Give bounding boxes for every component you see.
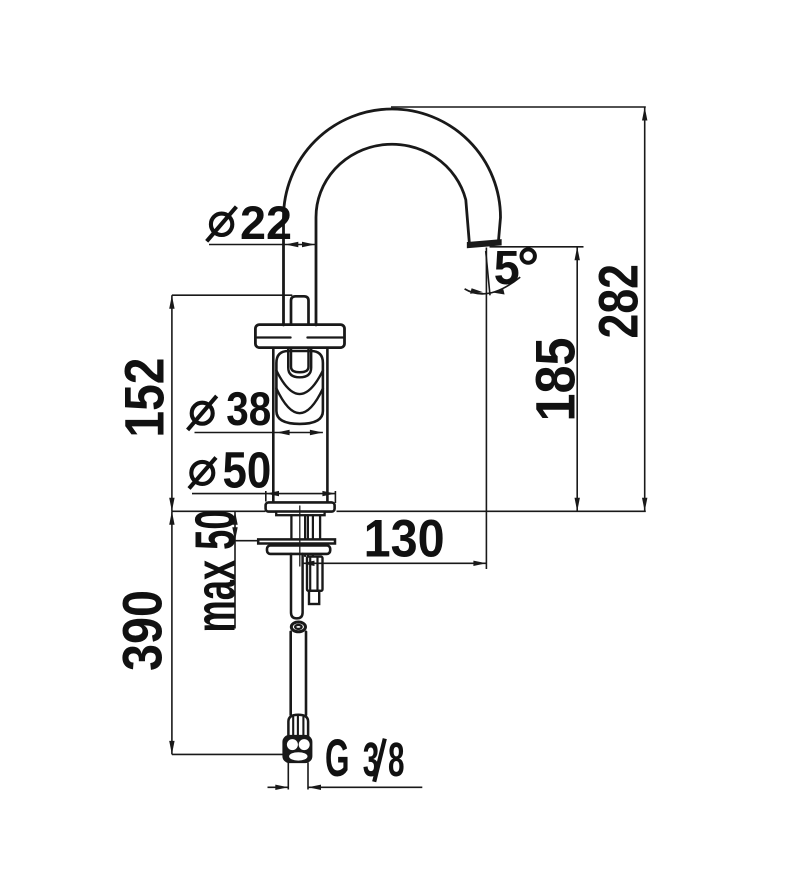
shank right line <box>319 515 321 539</box>
G3/8 nut circle left <box>287 739 298 750</box>
shank inner line a <box>304 515 306 556</box>
supply elbow lower block <box>309 591 319 604</box>
supply elbow inner line a <box>309 557 311 591</box>
arrow 282 bottom <box>642 498 647 512</box>
arrow 130 right <box>473 561 486 566</box>
390 bottom extension line <box>172 753 285 755</box>
G3/8 nut bottom ellipse <box>289 752 307 760</box>
hose left line <box>289 632 292 715</box>
thread ext line right <box>307 763 309 790</box>
label o38 symbol <box>188 396 217 430</box>
svg-text:390: 390 <box>111 590 174 671</box>
hose ball joint inner <box>295 625 302 629</box>
arrow o22 right <box>302 242 315 247</box>
counter line right segment <box>337 510 646 512</box>
arrow 5deg arc left <box>470 288 483 294</box>
handle cross bar bevel line right <box>307 336 342 338</box>
spout tip face <box>468 240 502 248</box>
arrow o38 right <box>310 430 323 435</box>
top tangent extension line <box>391 106 646 108</box>
o22 dimension line <box>209 244 315 246</box>
svg-text:38: 38 <box>226 382 271 435</box>
handle skirt arc B <box>276 389 323 414</box>
arrow 5deg arc right <box>492 289 505 294</box>
hose right line <box>305 632 308 715</box>
faucet centerline <box>299 506 301 567</box>
5 degree arc <box>465 277 521 294</box>
handle stem lower <box>291 348 309 373</box>
shank inner line c <box>312 515 314 556</box>
arrow max50 bottom <box>232 527 237 541</box>
supply elbow block <box>307 557 323 591</box>
arrow thread left <box>275 785 288 790</box>
horseshoe washer <box>258 539 335 543</box>
svg-text:5: 5 <box>494 242 520 295</box>
185 dimension line <box>576 247 578 512</box>
o50 tick left <box>265 491 267 502</box>
arrow 152 bottom <box>169 498 174 512</box>
label o50 symbol <box>189 458 216 489</box>
arrow thread right <box>308 785 321 790</box>
svg-text:152: 152 <box>112 358 175 438</box>
arrow o22 left <box>285 242 298 247</box>
supply elbow inner line b <box>316 557 318 591</box>
o50 tick right <box>334 491 336 503</box>
shank inner line b <box>307 515 309 556</box>
mounting nut <box>267 545 330 554</box>
ferrule inner line a <box>292 717 294 735</box>
dimension drawing thin lines <box>172 107 646 790</box>
handle cross bar <box>255 325 344 348</box>
label o22 symbol <box>207 207 237 242</box>
ferrule <box>288 715 308 736</box>
svg-text:G: G <box>325 729 350 788</box>
svg-text:185: 185 <box>524 338 587 422</box>
body left edge <box>272 350 275 503</box>
hose ball joint outer <box>291 622 305 632</box>
shank left line <box>290 515 292 539</box>
max50 dimension line <box>234 511 236 628</box>
svg-text:50: 50 <box>223 442 272 499</box>
svg-text:282: 282 <box>587 264 650 339</box>
body right edge <box>326 350 329 503</box>
arrow 130 left <box>302 561 315 566</box>
arrow 282 top <box>642 107 647 121</box>
handle cross bar bevel line left <box>257 336 290 338</box>
base under-plate <box>276 512 324 516</box>
thread ext line left <box>287 763 289 790</box>
390 dimension line <box>171 511 173 754</box>
handle stem top <box>291 296 309 324</box>
ferrule inner line c <box>302 717 304 735</box>
handle skirt outline <box>276 351 323 424</box>
o38 dimension line <box>195 432 323 434</box>
o50 dimension line <box>192 493 335 495</box>
arrowheads <box>169 107 647 790</box>
thread dim line left <box>268 786 289 788</box>
spout inner arc <box>316 144 469 325</box>
handle skirt socket <box>288 349 311 377</box>
ferrule inner line b <box>297 716 299 735</box>
spout tip extension line <box>490 246 584 248</box>
arrow max50 top <box>232 511 237 525</box>
arrow o50 left <box>266 491 279 496</box>
tailpiece tube <box>291 554 303 619</box>
arrow o38 left <box>277 430 290 435</box>
arrow 152 top <box>169 295 174 309</box>
thread dim line right <box>308 786 422 788</box>
arrow o50 right <box>322 491 335 496</box>
max50 extension line <box>235 540 259 542</box>
spout outer arc and right tube <box>284 109 501 325</box>
arrow 185 top <box>575 247 580 260</box>
arrow 390 top <box>169 511 174 525</box>
G3/8 nut circle right <box>299 739 310 750</box>
svg-text:max 50: max 50 <box>183 510 247 633</box>
handle skirt arc A <box>276 371 323 395</box>
spout drop line <box>485 248 487 570</box>
arrow 185 bottom <box>575 498 580 512</box>
5 degree slant line <box>486 251 490 295</box>
svg-text:8: 8 <box>388 734 405 787</box>
arrow 390 bottom <box>169 741 174 755</box>
svg-text:130: 130 <box>364 509 445 568</box>
152 dimension line <box>171 295 173 511</box>
130 dimension line <box>302 562 487 564</box>
svg-text:22: 22 <box>240 196 292 249</box>
base flange <box>266 502 335 511</box>
282 dimension line <box>644 107 646 511</box>
G3/8 connector nut body <box>283 735 312 762</box>
152 top extension line <box>172 294 292 296</box>
counter line left segment <box>172 510 266 512</box>
